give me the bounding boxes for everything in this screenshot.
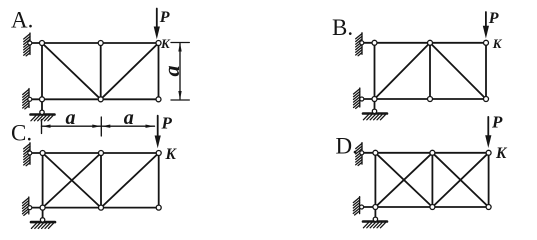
svg-text:P: P [159,9,170,26]
truss C left vertical [42,153,44,208]
truss B diagonal bottom-left to top-middle [375,43,431,99]
svg-text:K: K [165,146,178,163]
truss D lower wall [353,197,359,215]
truss D ground [363,222,387,228]
dimension a right of truss A [171,43,189,101]
truss A lower wall pin [28,97,32,101]
truss D node bottom-middle [430,205,435,210]
truss B node bottom-left [372,97,377,102]
truss C ground pin [40,218,44,222]
svg-text:P: P [491,112,503,131]
truss A vertical support link [41,99,43,112]
svg-text:a: a [159,66,184,77]
truss D left vertical [374,153,376,207]
truss A node bottom-middle [98,97,103,102]
svg-text:B.: B. [332,15,353,40]
truss A top chord [42,42,159,44]
truss A bottom chord [42,98,159,100]
truss B bottom chord [375,98,487,100]
truss B ground [363,114,387,120]
truss B upper wall [356,33,362,56]
truss C node bottom-middle [99,205,104,210]
truss A lower support link [30,98,42,100]
truss C vertical support link [42,208,44,220]
truss B lower support link [362,98,375,100]
truss B diagonal top-middle to bottom-right [430,43,486,99]
truss D lower wall pin [360,205,364,209]
load P on truss C [155,116,161,149]
truss A node bottom-left [40,97,45,102]
truss D diagonal bottom-left to top-middle [375,153,432,207]
truss A node bottom-right [156,97,161,102]
svg-text:P: P [161,113,173,132]
truss C upper support link [30,152,43,154]
truss D node top-left [373,150,378,155]
truss A upper wall pin [28,41,32,45]
truss D right vertical [488,153,490,207]
svg-text:A.: A. [11,8,33,33]
truss A left vertical [41,43,43,99]
truss D node bottom-right [486,205,491,210]
truss A lower wall [23,89,29,109]
truss B upper wall pin [360,41,364,45]
truss A ground [31,115,55,121]
truss B upper support link [362,42,375,44]
truss D upper support link [362,152,376,154]
truss B lower wall [354,88,360,108]
truss B node bottom-middle [428,97,433,102]
truss C diagonal bottom-middle to top-right [101,153,159,208]
svg-text:a: a [66,107,76,129]
truss D bottom chord [375,206,488,208]
truss B node K top-right [484,40,489,45]
load P on truss D [485,117,491,148]
truss B node top-left [372,40,377,45]
truss B node top-middle [428,40,433,45]
truss C lower wall [23,197,29,215]
truss C right vertical [158,153,160,208]
dimension a a below truss A [42,117,155,136]
svg-text:K: K [492,36,503,51]
svg-text:P: P [488,10,499,27]
truss D top chord [375,152,488,154]
truss B node bottom-right [484,97,489,102]
truss C node top-left [40,151,45,156]
truss A diagonal top-left to bottom-middle [42,43,101,99]
truss C node top-middle [99,151,104,156]
truss B middle vertical [429,43,431,99]
truss C diagonal bottom-left to top-middle [43,153,101,208]
svg-text:C.: C. [11,121,32,146]
truss C node K top-right [156,151,161,156]
truss C bottom chord [43,207,159,209]
truss C upper wall [24,143,30,166]
truss D ground pin [373,217,377,221]
truss B right vertical [485,43,487,99]
truss D diagonal top-middle to bottom-right [432,153,488,207]
truss D node top-middle [430,150,435,155]
truss A upper support link [30,42,42,44]
truss B vertical support link [374,99,376,111]
truss C ground [31,222,55,228]
load P on truss A [154,9,160,40]
truss A middle vertical [100,43,102,99]
truss C middle vertical [100,153,102,208]
truss B top chord [375,42,487,44]
truss B lower wall pin [360,97,364,101]
truss A diagonal bottom-middle to top-right [101,43,159,99]
truss D diagonal bottom-middle to top-right [432,153,488,207]
truss D middle vertical [431,153,433,207]
truss A ground pin [40,110,44,114]
truss D node bottom-left [373,205,378,210]
truss A upper wall [24,33,30,56]
svg-text:K: K [495,145,508,162]
truss B left vertical [374,43,376,99]
truss C lower support link [30,207,43,209]
truss A node top-left [40,41,45,46]
truss C diagonal top-left to bottom-middle [43,153,101,208]
load P on truss B [483,12,489,39]
svg-text:K: K [160,36,171,51]
truss C lower wall pin [28,206,32,210]
truss B ground pin [372,109,376,113]
truss D node K top-right [486,150,491,155]
truss C upper wall pin [28,151,32,155]
truss D upper wall [356,143,362,166]
truss D upper wall pin [360,151,364,155]
truss A node top-middle [98,41,103,46]
truss C node bottom-left [40,205,45,210]
truss C top chord [43,152,159,154]
truss D vertical support link [374,207,376,219]
svg-text:D.: D. [336,133,358,158]
svg-text:a: a [124,107,134,129]
truss A right vertical [158,43,160,99]
truss D lower support link [362,206,376,208]
truss C node bottom-right [156,205,161,210]
truss A node K top-right [156,41,161,46]
truss D diagonal top-left to bottom-middle [375,153,432,207]
